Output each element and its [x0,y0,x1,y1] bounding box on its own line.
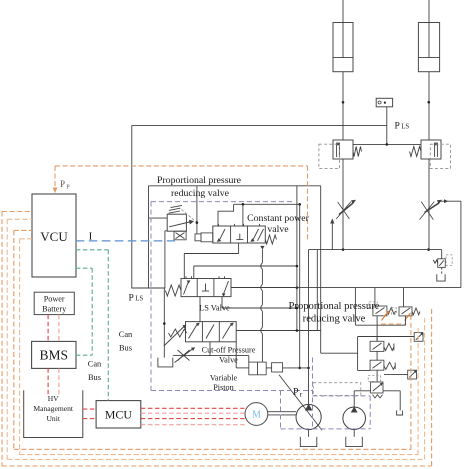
svg-text:P: P [66,184,70,191]
svg-text:VCU: VCU [40,229,68,244]
svg-text:LS Valve: LS Valve [199,304,230,313]
svg-text:LS: LS [401,123,409,130]
svg-text:Variable: Variable [210,374,238,383]
svg-text:Can: Can [119,330,133,339]
svg-text:LS: LS [135,295,143,302]
svg-text:P: P [60,179,65,189]
svg-text:M: M [252,410,261,421]
svg-text:Valve: Valve [219,356,238,365]
svg-text:Bus: Bus [88,373,101,382]
svg-text:Battery: Battery [42,305,67,314]
svg-text:reducing valve: reducing valve [171,188,230,199]
svg-text:HV: HV [48,394,59,403]
svg-text:Power: Power [44,295,65,304]
svg-text:MCU: MCU [105,408,133,422]
svg-text:Constant power: Constant power [247,213,310,224]
svg-text:P: P [395,121,400,131]
svg-text:Unit: Unit [46,414,60,423]
svg-text:P: P [293,387,299,398]
svg-text:Management: Management [33,404,74,413]
svg-text:reducing valve: reducing valve [303,314,366,325]
svg-text:Bus: Bus [119,344,132,353]
svg-text:I: I [89,231,93,243]
svg-text:P: P [129,293,134,303]
svg-text:Can: Can [88,360,102,369]
svg-text:Piston: Piston [213,383,233,392]
svg-text:Cut-off Pressure: Cut-off Pressure [202,346,256,355]
svg-text:valve: valve [267,224,289,235]
svg-text:Proportional pressure: Proportional pressure [289,301,380,312]
svg-text:Proportional pressure: Proportional pressure [157,175,242,186]
svg-text:BMS: BMS [40,348,69,363]
